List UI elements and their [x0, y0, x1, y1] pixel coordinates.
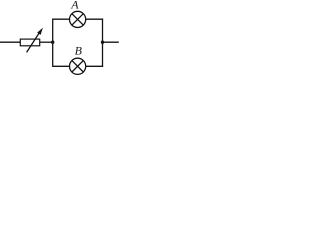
wire: right lead from right junction to right edge [103, 41, 119, 43]
rheostat arrowhead [37, 28, 43, 35]
svg-text:A: A [70, 0, 79, 11]
resistor (rheostat) R body [20, 39, 39, 46]
svg-text:B: B [75, 43, 83, 57]
wire: left vertical bus of parallel loop [52, 19, 54, 67]
wire: top branch to lamp A [53, 18, 70, 20]
lamp A symbol (circle with X) [70, 11, 86, 27]
junction node (right) [101, 41, 104, 44]
wire: lamp A to right vertical bus [86, 18, 103, 20]
wire: lamp B to right vertical bus [86, 65, 103, 67]
wire: right vertical bus of parallel loop [102, 19, 104, 67]
lamp B symbol (circle with X) [70, 58, 86, 74]
rheostat arrow shaft [27, 31, 41, 52]
wire: rheostat to left junction node [40, 41, 54, 43]
wire: bottom branch to lamp B [53, 65, 70, 67]
junction node (left) [51, 41, 54, 44]
wire: left lead from left edge to rheostat [0, 41, 20, 43]
